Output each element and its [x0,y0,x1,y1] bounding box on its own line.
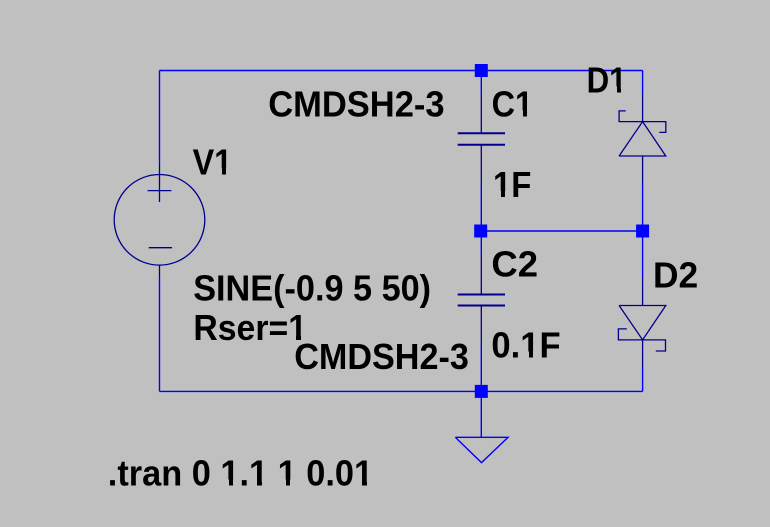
svg-text:1F: 1F [493,164,531,205]
wire bottom horizontal [160,390,643,392]
svg-text:C2: C2 [491,244,538,285]
wire cap column: node1 to C1 top pin [480,71,482,95]
svg-text:0.1F: 0.1F [491,325,560,366]
wire mid node to D2 top pin [642,231,644,277]
junction node at top of C1 column [475,64,488,77]
diode D2 (schottky, cathode down) [618,277,665,368]
junction node mid right (D1/D2) [636,225,649,238]
wire C1 bottom pin to mid node [480,184,482,232]
svg-text:SINE(-0.9 5 50): SINE(-0.9 5 50) [193,268,431,309]
junction node mid left (C1/C2) [474,225,487,238]
svg-text:Rser=1: Rser=1 [193,307,307,348]
svg-text:.tran 0 1.1 1 0.01: .tran 0 1.1 1 0.01 [108,453,373,494]
cover foot serifs of digit 1 glyphs [515,110,523,117]
wire top horizontal [160,70,643,72]
wire bottom node to ground [480,391,482,437]
wire left rail lower [159,277,161,391]
svg-text:D1: D1 [587,60,627,101]
capacitor C2 [458,254,505,344]
wire left rail upper [159,71,161,163]
ground [455,437,508,462]
wire D1 top: top wire corner to D1 pin [642,71,644,95]
svg-text:C1: C1 [492,84,533,125]
voltage source V1 [114,162,205,277]
junction node bottom (ground) [475,385,488,398]
capacitor C1 [458,94,505,184]
svg-text:D2: D2 [653,255,698,296]
diode D1 (schottky, cathode up) [619,94,666,184]
wire D2 bottom pin to bottom wire [642,368,644,391]
svg-text:V1: V1 [193,142,233,183]
wire C2 bottom pin to bottom node [480,344,482,392]
wire mid node to C2 top pin [480,231,482,254]
wire D1 bottom pin to mid node [642,184,644,231]
svg-text:CMDSH2-3: CMDSH2-3 [294,336,469,377]
svg-text:CMDSH2-3: CMDSH2-3 [268,83,444,124]
wire middle horizontal [481,230,642,232]
